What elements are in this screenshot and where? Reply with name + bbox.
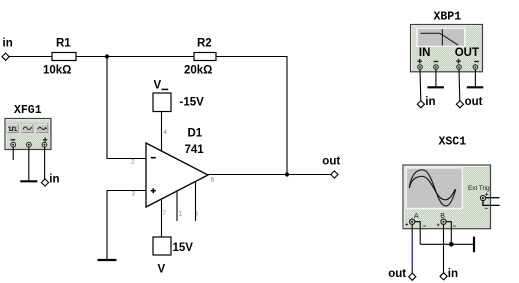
XBP1 in plus mark [417,59,422,64]
wire XSC1 A- stub to bus [415,222,420,245]
XSC1 terminal A [410,219,415,224]
XSC1 ext trig minus mark [485,207,488,209]
XFG1 terminal minus [11,142,16,147]
source V_ -15V [153,79,204,111]
pin number 2 [131,159,135,166]
wire input to R1 [9,56,52,58]
resistor R1 [43,38,76,77]
ground XBP1 in- [427,86,444,88]
svg-text:10kΩ: 10kΩ [43,65,71,77]
XSC1 ext trig plus mark [485,193,488,196]
XBP1 in minus mark [434,61,439,63]
wire XSC1 B to in node [443,224,445,273]
svg-text:in: in [448,268,458,280]
wire XSC1 A black segment [411,224,413,273]
svg-text:IN: IN [419,47,431,59]
XSC1 A minus mark [423,225,426,227]
XSC1 ext trig plus stub [486,197,500,199]
wire R2 to output node [216,57,287,175]
svg-text:out: out [322,156,340,168]
source V 15V [153,237,193,276]
XFG1 body [5,119,51,150]
XSC1 ext trig terminal [480,195,485,200]
resistor R2 [184,38,216,77]
junction at output node [285,172,289,176]
XFG1 square wave button [7,124,18,133]
XBP1 OUT label [455,47,479,59]
wire output pin 6 to out node [208,174,331,176]
node out at XSC1 [388,268,416,280]
XBP1 body [411,25,483,72]
XBP1 out minus mark [474,61,479,63]
node out (output connector) [322,156,340,179]
svg-text:out: out [465,96,483,108]
function generator XFG1 [14,104,42,117]
wire pin 3 to ground [107,191,146,260]
XFG1 plus mark [43,138,47,142]
junction at R1/R2/feedback node [105,54,109,58]
wire pin 5 stub [195,182,197,221]
oscilloscope XSC1 label [439,135,467,148]
svg-text:XBP1: XBP1 [434,10,462,23]
wire pin 1 stub [176,192,178,222]
ground XBP1 out- [467,86,484,88]
wire XFG1 common to ground [28,147,30,181]
svg-text:15V: 15V [173,242,194,254]
XSC1 channel B label [440,213,445,220]
svg-text:in: in [49,174,59,186]
wire XSC1 A blue segment to out node [411,236,413,268]
pin number 6 [211,176,215,183]
op-amp U1 (D1 741) triangle [146,128,208,208]
wire R1 to R2 [76,56,194,58]
svg-text:3: 3 [132,190,136,197]
pin number 4 [164,129,168,136]
XSC1 A plus mark [405,223,408,226]
svg-text:in: in [3,38,13,50]
pin number 3 [132,190,136,197]
XFG1 terminal plus [42,142,47,147]
wire feedback from junction down to pin 2 [107,57,146,159]
wire XSC1 B- stub to bus [446,222,451,245]
XSC1 terminal B [441,219,446,224]
ground below pin 3 [98,259,117,261]
pin number 1 [179,211,183,218]
node in input diamond [2,53,9,60]
XSC1 screen [406,167,463,209]
XBP1 terminal in- [434,65,439,70]
XSC1 B minus mark [453,225,456,227]
wire XFG1 minus stub [12,147,14,160]
XFG1 terminal common [26,142,31,147]
XSC1 Ext Trig label [468,185,490,192]
XSC1 body [403,165,491,229]
svg-text:4: 4 [164,129,168,136]
svg-text:in: in [425,96,435,108]
XFG1 triangle wave button [37,124,48,133]
pin number 7 [163,210,167,217]
XSC1 channel A label [414,213,419,220]
svg-text:V: V [154,79,162,91]
wire XSC1 ground bus [420,243,474,245]
svg-text:7: 7 [163,210,167,217]
ground below XFG1 [20,180,37,182]
wire XBP1 out- to ground [474,69,476,87]
svg-text:A: A [414,213,419,220]
svg-text:XFG1: XFG1 [14,104,42,117]
wire pin 4 to V- supply [161,112,163,152]
wire pin 7 to 15V supply [161,200,163,238]
XSC1 B plus mark [437,223,440,226]
node in at XSC1 [440,268,458,280]
svg-text:Ext Trig: Ext Trig [468,185,490,192]
node out at XBP1 [456,96,482,108]
ground XSC1 rotated [473,237,475,253]
svg-text:-15V: -15V [180,97,205,109]
XBP1 screen [416,28,465,47]
XBP1 terminal out- [473,65,478,70]
XBP1 terminal out+ [457,65,462,70]
XBP1 terminal in+ [418,65,423,70]
svg-text:6: 6 [211,176,215,183]
pin number 5 [195,211,199,218]
node in at XBP1 [417,96,435,108]
wire XBP1 in- to ground [435,69,437,87]
XBP1 out plus mark [456,59,461,64]
bode plotter XBP1 label [434,10,462,23]
svg-text:1: 1 [179,211,183,218]
XSC1 ext trig minus stub [483,201,500,206]
svg-text:OUT: OUT [455,47,479,59]
node in (input connector label) [3,38,13,50]
svg-text:R1: R1 [56,38,71,50]
svg-text:20kΩ: 20kΩ [184,65,212,77]
svg-text:V: V [158,264,166,276]
junction at ground bus [449,242,454,247]
XBP1 IN label [419,47,431,59]
wire XBP1 out+ to out node [458,69,461,101]
svg-text:out: out [388,268,406,280]
svg-text:2: 2 [131,159,135,166]
node in at XFG1 [41,174,59,187]
wire XFG1 plus to in node [44,147,46,179]
svg-text:741: 741 [185,144,205,156]
wire XBP1 in+ to in node [419,69,422,101]
XFG1 minus mark [11,139,16,141]
XFG1 sine wave button [22,124,33,133]
svg-text:XSC1: XSC1 [439,135,467,148]
svg-text:R2: R2 [197,38,212,50]
svg-text:D1: D1 [188,128,203,140]
